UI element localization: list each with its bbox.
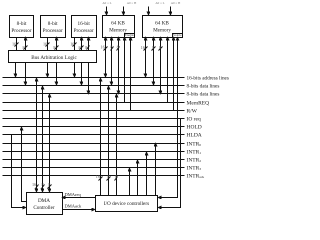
wire memory M1 MemREQ tap — [124, 38, 126, 103]
svg-text:I/O device controllers: I/O device controllers — [104, 201, 149, 207]
svg-text:Processor: Processor — [43, 28, 63, 34]
wire arbiter P3 data low drop to data bus 1 — [81, 63, 83, 85]
svg-text:8-bits data lines: 8-bits data lines — [187, 91, 220, 97]
wire P3 data low (8) to arbiter — [79, 38, 84, 51]
svg-text:8: 8 — [110, 45, 112, 50]
svg-text:8: 8 — [85, 45, 87, 50]
wire I/O INTR3 request up to INTR3 bus — [129, 169, 131, 196]
wire P3 data high (8) to arbiter — [85, 38, 89, 51]
wire I/O INTR1 request up to INTR1 bus — [146, 153, 148, 196]
svg-text:DMA: DMA — [38, 198, 50, 204]
svg-text:Enable: Enable — [125, 33, 135, 37]
wire select line into memory M1 pin 2 — [123, 7, 125, 15]
wire memory M1 data tap 2 (8) — [117, 38, 120, 94]
processor P3 (16-bit) — [72, 16, 97, 38]
svg-text:Processor: Processor — [11, 28, 31, 34]
bus net: 16-bits address lines — [3, 75, 229, 81]
bus arbitration logic U1 — [9, 51, 97, 63]
svg-text:A0 = L: A0 = L — [102, 1, 111, 5]
bus net: HOLD — [3, 124, 202, 130]
svg-text:INTRack: INTRack — [187, 173, 205, 179]
wire arbiter P1 data drop to data bus 1 — [25, 63, 27, 85]
svg-text:IO req: IO req — [187, 116, 201, 122]
bus net: INTR1 — [3, 149, 202, 155]
svg-text:INTR1: INTR1 — [187, 149, 202, 155]
wire DMAack from DMA to I/O controllers — [63, 204, 95, 210]
svg-text:8: 8 — [115, 174, 117, 179]
bus net: INTR0 — [3, 141, 202, 147]
svg-text:INTR2: INTR2 — [187, 157, 202, 163]
wire I/O INTR2 request up to INTR2 bus — [137, 161, 139, 196]
svg-text:INTR3: INTR3 — [187, 165, 202, 171]
svg-text:16: 16 — [101, 45, 105, 50]
bus net: 8-bits data lines (high byte) — [3, 91, 220, 97]
wire memory M2 R/W tap — [173, 38, 175, 111]
svg-text:8-bit: 8-bit — [17, 21, 27, 27]
svg-text:16: 16 — [96, 174, 100, 179]
svg-text:Memory: Memory — [153, 28, 171, 34]
svg-text:16: 16 — [32, 182, 36, 187]
svg-text:8: 8 — [23, 45, 25, 50]
svg-text:16: 16 — [43, 42, 47, 47]
svg-text:64 KB: 64 KB — [155, 21, 169, 27]
svg-text:HLDA: HLDA — [187, 132, 202, 138]
svg-text:16: 16 — [12, 42, 16, 47]
svg-text:Processor: Processor — [74, 28, 94, 34]
svg-text:A0 = H: A0 = H — [171, 1, 181, 5]
enable block of memory M2 — [172, 33, 182, 38]
bus net: INTRack — [3, 173, 205, 179]
wire P2 address (16) to arbiter — [43, 38, 50, 51]
svg-text:8: 8 — [53, 45, 55, 50]
svg-text:16-bit: 16-bit — [77, 21, 90, 27]
svg-text:16: 16 — [141, 45, 145, 50]
svg-text:R/W: R/W — [187, 108, 198, 114]
processor P2 (8-bit) — [41, 16, 66, 38]
enable block of memory M1 — [125, 33, 135, 38]
wire arbiter P1 address drop to address bus — [15, 63, 17, 77]
wire memory M2 MemREQ tap — [167, 38, 169, 103]
wire I/O data tap 1 (8) up to data bus 1 — [107, 87, 111, 196]
svg-text:MemREQ: MemREQ — [187, 100, 210, 106]
svg-text:Bus Arbitration Logic: Bus Arbitration Logic — [31, 55, 77, 61]
bus net: R/W — [3, 108, 198, 114]
wire memory M1 address tap (16) — [101, 38, 108, 78]
bus net: HLDA — [3, 132, 202, 138]
svg-text:Enable: Enable — [172, 33, 182, 37]
svg-text:64 KB: 64 KB — [111, 21, 125, 27]
wire I/O address tap (16) up to address bus — [96, 79, 103, 196]
wire select line into memory M2 pin 1 — [148, 7, 150, 15]
svg-text:8: 8 — [107, 174, 109, 179]
svg-text:16-bits address lines: 16-bits address lines — [187, 75, 229, 81]
svg-text:8-bits data lines: 8-bits data lines — [187, 83, 220, 89]
svg-text:8: 8 — [48, 182, 50, 187]
wire DMA data line 1 (8) up to data bus 1 — [42, 87, 45, 192]
svg-text:INTR0: INTR0 — [187, 141, 202, 147]
wire memory M2 address tap (16) — [141, 38, 148, 78]
wire DMA HOLD request up to HOLD bus — [22, 128, 27, 202]
wire select line into memory M1 pin 1 — [106, 7, 108, 15]
wire P2 data (8) to arbiter — [53, 38, 58, 51]
processor P1 (8-bit) — [10, 16, 34, 38]
DMA controller U2 — [27, 193, 63, 215]
svg-text:16: 16 — [70, 42, 74, 47]
wire memory M2 INTA feed to I/O controllers — [159, 38, 178, 198]
wire arbiter P2 address drop to address bus — [47, 63, 49, 77]
wire select line into memory M2 pin 2 — [170, 7, 172, 15]
wire DMA data line 2 (8) up to data bus 2 — [48, 95, 52, 192]
svg-text:8: 8 — [117, 45, 119, 50]
bus net: INTR3 — [3, 165, 202, 171]
wire I/O INTR0 request up to INTR0 bus — [155, 144, 157, 196]
memory M2 (64 KB) — [143, 16, 183, 38]
wire DMA address line (16) up to address bus — [32, 79, 39, 192]
svg-text:Controller: Controller — [33, 205, 55, 211]
wire memory M1 R/W tap — [130, 38, 132, 111]
wire P1 data (8) to arbiter — [23, 38, 28, 51]
svg-text:8: 8 — [152, 45, 154, 50]
I/O device controllers U3 — [96, 196, 158, 212]
bus net: INTR2 — [3, 157, 202, 163]
svg-text:A0 = H: A0 = H — [127, 1, 137, 5]
bus net: MemREQ — [3, 100, 210, 106]
wire HLDA to DMA controller — [12, 135, 26, 208]
svg-text:HOLD: HOLD — [187, 124, 202, 130]
svg-text:DMAack: DMAack — [65, 204, 82, 209]
wire arbiter P3 data high drop to data bus 2 — [88, 63, 90, 94]
bus net: 8-bits data lines (low byte) — [3, 83, 220, 89]
bus net: IO req — [3, 116, 201, 122]
wire memory M2 data tap 1 (8) — [152, 38, 156, 86]
wire arbiter P3 address drop to address bus — [74, 63, 76, 77]
wire DMAreq from I/O controllers to DMA — [63, 192, 96, 198]
wire memory M1 data tap 1 (8) — [110, 38, 113, 86]
wire P1 address (16) to arbiter — [12, 38, 19, 51]
wire arbiter P2 data drop to data bus 1 — [56, 63, 58, 85]
svg-text:DMAreq: DMAreq — [65, 192, 82, 197]
svg-text:8: 8 — [159, 45, 161, 50]
wire P3 address (16) to arbiter — [70, 38, 76, 51]
wire IO req drop to I/O controllers — [159, 119, 181, 208]
svg-text:A0 = L: A0 = L — [155, 1, 164, 5]
memory M1 (64 KB) — [103, 16, 135, 38]
wire I/O data tap 2 (8) up to data bus 2 — [115, 95, 118, 196]
svg-text:8-bit: 8-bit — [48, 21, 58, 27]
wire memory M2 data tap 2 (8) — [159, 38, 163, 94]
svg-text:8: 8 — [42, 182, 44, 187]
svg-text:8: 8 — [79, 45, 81, 50]
